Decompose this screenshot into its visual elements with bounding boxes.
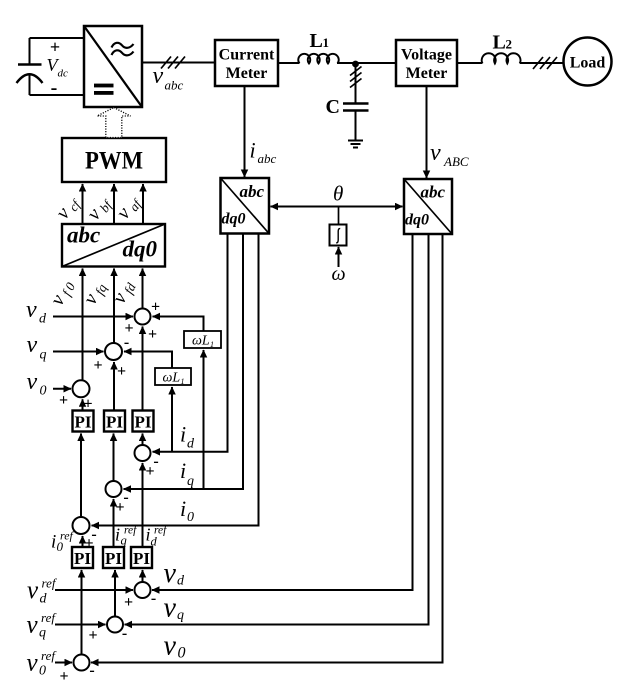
- svg-text:d: d: [187, 437, 195, 452]
- wire id sum to PI-d: [142, 434, 144, 446]
- wire vabc: [142, 62, 215, 64]
- label i_abc: [250, 137, 277, 166]
- wire theta to integrator: [338, 207, 340, 225]
- integrator block: [330, 225, 347, 246]
- svg-text:v: v: [27, 369, 38, 395]
- PI block voltage d: [133, 411, 154, 432]
- label i_q: [180, 458, 194, 489]
- svg-text:v: v: [164, 558, 177, 589]
- svg-text:i: i: [250, 137, 256, 162]
- svg-text:abc: abc: [165, 78, 184, 93]
- wire dc bottom: [30, 94, 85, 96]
- filter cap branch wire: [355, 64, 357, 104]
- svg-text:+: +: [124, 594, 133, 611]
- svg-text:PI: PI: [75, 413, 92, 432]
- block arrow PWM to inverter: [97, 108, 130, 138]
- summing junction v0 ref: [59, 655, 94, 686]
- svg-text:θ: θ: [333, 182, 343, 206]
- svg-text:-: -: [151, 590, 156, 607]
- svg-text:i: i: [180, 422, 186, 447]
- label v_ABC: [430, 140, 469, 169]
- svg-text:d: d: [151, 535, 158, 549]
- PWM block: [62, 138, 166, 182]
- wire vq sum to PI current q: [114, 570, 116, 618]
- svg-text:dq0: dq0: [405, 212, 429, 229]
- svg-text:i: i: [115, 525, 120, 545]
- wire PI-q out to vfq sum: [113, 362, 115, 411]
- svg-text:-: -: [89, 662, 94, 679]
- wire meter to L2: [457, 62, 482, 64]
- svg-text:v: v: [26, 297, 37, 323]
- svg-text:abc: abc: [258, 151, 277, 166]
- feedback i0 from abc/dq0: [92, 234, 259, 526]
- wire vcf to PWM: [82, 184, 84, 224]
- wire iq sum to PI-q: [113, 434, 115, 482]
- wire i0 sum to PI-0: [80, 434, 82, 518]
- label v_d feedback: [164, 558, 186, 589]
- slash marks cap branch: [350, 67, 362, 88]
- wire vABC voltage meter to abc/dq0: [426, 86, 428, 178]
- junction node: [352, 61, 359, 68]
- svg-text:i: i: [180, 496, 186, 521]
- svg-text:PI: PI: [74, 549, 91, 568]
- svg-text:0: 0: [39, 664, 46, 679]
- svg-text:+: +: [115, 499, 124, 516]
- svg-text:Current: Current: [219, 47, 275, 64]
- wire PI-0 out to vf0 sum: [82, 399, 84, 410]
- summing junction i0: [73, 517, 97, 552]
- svg-text:Meter: Meter: [226, 65, 268, 82]
- svg-text:0: 0: [187, 510, 194, 525]
- wire id tap to omega-L1 lower: [171, 387, 173, 452]
- label v_cf: [52, 191, 85, 224]
- feedback v0 from abc/dq0 voltage: [91, 234, 443, 663]
- svg-text:v: v: [430, 140, 441, 166]
- label i_d ref: [146, 525, 169, 549]
- input v_0: [53, 388, 71, 390]
- wire vf0 sum to block: [82, 269, 84, 381]
- svg-text:Meter: Meter: [406, 65, 448, 82]
- svg-text:q: q: [40, 348, 47, 363]
- omega-L1 block upper: [184, 331, 221, 349]
- label L2: [493, 32, 513, 54]
- wire omega-L1 upper to vfd sum: [153, 317, 204, 332]
- three-phase slash marks on vabc: [161, 57, 185, 69]
- svg-text:PI: PI: [133, 549, 150, 568]
- PI block current d: [131, 547, 152, 568]
- feedback vq from abc/dq0 voltage: [125, 234, 429, 625]
- summing junction vfq: [93, 334, 129, 380]
- svg-text:1: 1: [181, 377, 185, 386]
- svg-text:-: -: [122, 625, 127, 642]
- svg-text:v: v: [27, 650, 39, 677]
- svg-text:+: +: [145, 463, 154, 480]
- svg-text:i: i: [51, 531, 56, 552]
- svg-text:abc: abc: [421, 183, 446, 202]
- svg-text:+: +: [59, 668, 68, 685]
- wire vd sum to PI current d: [142, 570, 144, 582]
- svg-text:ref: ref: [154, 525, 168, 537]
- summing junction vq ref: [88, 617, 127, 645]
- wire dc top: [30, 37, 85, 39]
- svg-text:C: C: [326, 96, 340, 118]
- input v_q: [53, 351, 104, 353]
- svg-text:q: q: [177, 608, 184, 623]
- wire PI current d out (id ref): [142, 463, 144, 547]
- wire PI current 0 out (i0 ref): [82, 536, 84, 547]
- summing junction iq: [106, 481, 129, 516]
- wire vfd sum to block: [142, 269, 144, 309]
- svg-text:v: v: [27, 577, 39, 604]
- svg-text:ref: ref: [41, 648, 57, 663]
- svg-text:d: d: [40, 592, 48, 607]
- PI block current q: [103, 547, 124, 568]
- svg-text:L: L: [493, 32, 506, 54]
- PI block voltage q: [104, 411, 125, 432]
- dq0 to abc wide block: [62, 223, 165, 267]
- Current Meter block: [215, 40, 278, 86]
- svg-text:Load: Load: [570, 54, 606, 71]
- label v_abc: [153, 63, 184, 93]
- svg-text:PWM: PWM: [85, 148, 143, 175]
- inverter dc bars: [94, 84, 114, 95]
- svg-text:d: d: [177, 574, 185, 589]
- wire meter to L1: [278, 62, 299, 64]
- Voltage Meter block: [396, 40, 457, 86]
- label v_f0: [46, 276, 78, 310]
- wire omega-L1 lower to vfq sum: [124, 352, 172, 369]
- input v_d: [53, 316, 133, 318]
- input vd ref: [55, 589, 133, 591]
- label i_0 ref: [51, 529, 75, 555]
- wire PI-d out to vfd sum: [142, 327, 144, 411]
- label v_af: [112, 190, 145, 224]
- label L1: [310, 30, 330, 52]
- label v_0 feedback: [164, 631, 186, 662]
- capacitor C: [343, 104, 369, 111]
- abc/dq0 block voltage: [404, 179, 452, 234]
- capacitor Vdc source symbol: [17, 38, 43, 95]
- svg-text:d: d: [39, 312, 47, 327]
- wire L2 to load: [520, 62, 564, 64]
- svg-text:q: q: [187, 474, 194, 489]
- label i_0: [180, 496, 194, 525]
- svg-text:ωL: ωL: [192, 334, 210, 349]
- wire cap to ground: [355, 111, 357, 141]
- svg-text:ref: ref: [60, 529, 75, 543]
- svg-text:+: +: [93, 357, 102, 374]
- svg-text:ref: ref: [124, 525, 138, 537]
- arrow omega to integrator: [338, 247, 340, 267]
- svg-text:dq0: dq0: [123, 237, 158, 262]
- omega-L1 block lower: [155, 368, 191, 386]
- svg-text:ref: ref: [42, 576, 58, 591]
- label v_fd: [108, 276, 139, 307]
- Load: [564, 38, 612, 86]
- theta link double arrow: [271, 206, 403, 208]
- summing junction id: [135, 445, 159, 480]
- svg-text:i: i: [180, 458, 186, 483]
- svg-text:+: +: [59, 392, 68, 409]
- inductor L1: [298, 54, 339, 64]
- label v_q feedback: [164, 593, 185, 624]
- PI block current 0: [72, 547, 93, 568]
- svg-text:1: 1: [210, 340, 214, 349]
- feedback iq from abc/dq0: [124, 234, 244, 490]
- label Vdc + plus/minus: [47, 37, 69, 99]
- wire PI current q out (iq ref): [113, 499, 115, 547]
- wire L1 to voltage meter: [337, 62, 396, 64]
- label i_q ref: [115, 525, 138, 548]
- wire vaf to PWM: [142, 184, 144, 224]
- svg-text:abc: abc: [67, 223, 100, 248]
- svg-text:ABC: ABC: [443, 154, 469, 169]
- summing junction vf0: [59, 380, 93, 412]
- svg-text:PI: PI: [105, 549, 122, 568]
- svg-text:v: v: [27, 612, 39, 639]
- svg-text:ωL: ωL: [163, 371, 181, 386]
- svg-text:+: +: [88, 627, 97, 644]
- svg-text:v: v: [164, 593, 177, 624]
- summing junction vd ref: [124, 582, 156, 611]
- feedback id from abc/dq0: [153, 234, 228, 452]
- input vq ref: [55, 624, 106, 626]
- svg-text:+: +: [148, 326, 157, 343]
- wire vbf to PWM: [113, 184, 115, 224]
- svg-text:0: 0: [40, 384, 47, 399]
- svg-text:ω: ω: [332, 263, 346, 285]
- inverter U1 (dc/ac bridge): [84, 26, 142, 107]
- inductor L2: [482, 53, 521, 63]
- svg-text:v: v: [164, 631, 177, 662]
- ground: [348, 141, 363, 148]
- svg-text:q: q: [39, 626, 46, 641]
- svg-text:v: v: [153, 63, 164, 89]
- label i_d: [180, 422, 195, 452]
- svg-text:v: v: [27, 332, 38, 358]
- svg-text:+: +: [151, 299, 160, 316]
- svg-text:2: 2: [506, 37, 513, 52]
- svg-text:ref: ref: [41, 610, 57, 625]
- label v_fq: [79, 277, 110, 308]
- wire iq tap to omega-L1 upper: [203, 350, 205, 489]
- svg-text:L: L: [310, 30, 323, 52]
- svg-text:1: 1: [323, 35, 330, 50]
- svg-text:0: 0: [178, 645, 186, 662]
- wire v0 sum to PI current 0: [81, 570, 83, 656]
- svg-text:Voltage: Voltage: [401, 47, 452, 64]
- three-phase slash marks load wire: [533, 57, 557, 69]
- label v_bf: [83, 191, 116, 225]
- wire vfq sum to block: [113, 269, 115, 344]
- svg-text:dc: dc: [58, 68, 69, 80]
- svg-text:abc: abc: [240, 182, 265, 201]
- feedback vd from abc/dq0 voltage: [152, 234, 413, 590]
- abc/dq0 block current: [221, 178, 270, 234]
- svg-text:+: +: [117, 363, 126, 380]
- svg-text:PI: PI: [106, 413, 123, 432]
- svg-text:PI: PI: [135, 413, 152, 432]
- svg-text:dq0: dq0: [222, 211, 246, 228]
- svg-text:-: -: [124, 334, 129, 351]
- PI block voltage 0: [73, 411, 94, 432]
- input v0 ref: [55, 662, 72, 664]
- wire iabc current meter to abc/dq0: [244, 86, 246, 177]
- summing junction vfd: [124, 299, 160, 344]
- svg-text:-: -: [51, 77, 58, 99]
